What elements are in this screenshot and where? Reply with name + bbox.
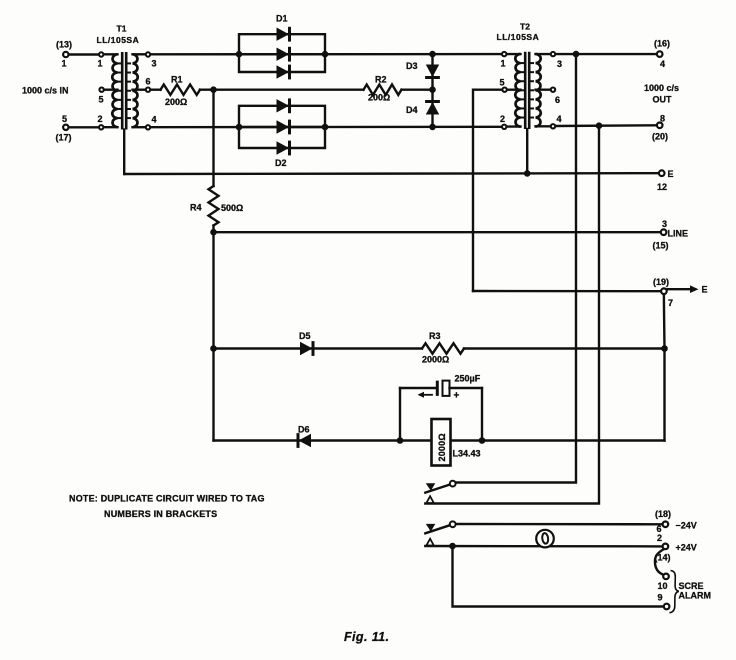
svg-text:NUMBERS IN BRACKETS: NUMBERS IN BRACKETS — [104, 509, 217, 519]
contact A armature tip — [426, 483, 436, 491]
wire D3/D4 vertical link — [431, 54, 433, 127]
terminal 9 — [658, 593, 670, 610]
wire loop terminal 2 to terminal 10 — [655, 550, 663, 575]
brace SCRE ALARM — [670, 571, 679, 613]
terminal 8 (20) output — [652, 114, 668, 142]
wire vertical from top-row node to contact A1 — [457, 54, 577, 482]
T2 secondary loop ticks — [530, 62, 534, 64]
capacitor polarity arrow minus — [418, 392, 433, 398]
wire D5 row left — [214, 347, 423, 349]
node D2 right — [322, 124, 329, 131]
svg-text:+24V: +24V — [676, 543, 697, 553]
svg-text:D1: D1 — [276, 14, 288, 24]
svg-text:500Ω: 500Ω — [221, 203, 243, 213]
transformer T1 core screen lead — [123, 130, 125, 175]
svg-text:2: 2 — [657, 533, 662, 543]
wire contact B fixed point to terminal 2 (+24V) — [425, 545, 662, 548]
contact B moving blade — [450, 521, 456, 527]
terminal 7 (19) — [653, 277, 673, 308]
diode D4 — [406, 102, 440, 116]
earth rail E — [124, 172, 658, 175]
T1 secondary loop ticks — [127, 62, 131, 64]
transformer T1 pin 1 — [99, 52, 103, 56]
svg-text:(13): (13) — [56, 40, 72, 50]
transformer T1 pin 4 — [146, 125, 150, 129]
terminal E 12 — [657, 169, 674, 192]
transformer T1 pin 2 — [99, 125, 103, 129]
node alarm branch on +24V wire — [449, 543, 456, 550]
svg-text:7: 7 — [668, 298, 673, 308]
svg-text:E: E — [668, 169, 674, 179]
svg-text:R4: R4 — [190, 203, 202, 213]
svg-text:R3: R3 — [429, 331, 441, 341]
contact A moving blade — [450, 481, 456, 487]
wire LINE rail — [214, 231, 661, 233]
wire alarm branch: node down and right to terminal 9 — [453, 546, 664, 607]
transformer T2 pin 5 — [502, 88, 506, 92]
D2 parallel frame — [239, 106, 325, 148]
svg-text:+: + — [454, 391, 460, 402]
D2 diode middle branch — [277, 120, 290, 133]
lamp / supervisory indicator on +24V wire — [536, 530, 554, 548]
svg-text:10: 10 — [658, 581, 668, 591]
earth arrow E at terminal (19) — [668, 285, 708, 295]
transformer T2 pin 6 — [551, 88, 555, 92]
node R4 bottom / LINE — [210, 229, 217, 236]
transformer T1 core — [122, 52, 126, 130]
terminal 3 LINE (15) — [653, 219, 689, 251]
svg-text:2000Ω: 2000Ω — [422, 355, 449, 365]
terminal 2 (14) +24V — [655, 533, 697, 563]
wire T2 pin 5 to vertical feed — [473, 90, 501, 291]
terminal 10 — [658, 574, 669, 591]
transformer T2 pin 2 — [502, 125, 506, 129]
diode group D2 (3 parallel diodes) — [236, 98, 329, 168]
svg-text:LL/105SA: LL/105SA — [497, 32, 540, 42]
T2 primary loop ticks — [519, 62, 524, 64]
node top row to switch feed — [573, 51, 580, 58]
wire middle row: R2 to D3/D4 node — [402, 88, 433, 90]
svg-text:D6: D6 — [298, 425, 310, 435]
T1 primary loop ticks — [116, 62, 121, 64]
svg-text:1: 1 — [62, 59, 67, 69]
node T2 screen at earth rail — [524, 170, 531, 177]
wire (19) row from T2 pin 5 feed — [473, 290, 660, 293]
transformer T2 pin 3 — [551, 52, 555, 56]
D1 parallel frame — [239, 34, 325, 72]
svg-text:(17): (17) — [56, 133, 72, 143]
node D1 right — [322, 51, 329, 58]
D1 diode top branch — [277, 28, 290, 41]
transformer T2 pin 1 — [502, 52, 506, 56]
D1 diode bottom branch — [277, 65, 290, 78]
D1 diode middle branch — [277, 48, 290, 61]
svg-text:OUT: OUT — [653, 95, 673, 105]
wire capacitor branch top left — [400, 387, 437, 389]
svg-text:8: 8 — [660, 114, 665, 124]
svg-text:E: E — [702, 285, 708, 295]
svg-text:1: 1 — [501, 59, 506, 69]
wire bottom row: T2 pin 4 to terminal 8 — [556, 124, 656, 127]
node D3/D4 at middle row — [429, 86, 436, 93]
diode D5 — [299, 331, 313, 356]
contact A fixed point — [426, 496, 433, 503]
node R3 right at vertical — [661, 345, 668, 352]
transformer T1 pin 5 — [99, 88, 103, 92]
svg-text:LINE: LINE — [668, 229, 689, 239]
svg-text:(15): (15) — [653, 241, 669, 251]
terminal 1 (13) input — [56, 40, 72, 69]
node bottom row to switch feed — [596, 122, 603, 129]
svg-text:Fig. 11.: Fig. 11. — [344, 630, 389, 644]
svg-text:3: 3 — [557, 59, 562, 69]
node capacitor left lead at D6 row — [397, 437, 404, 444]
node D3 top at top row — [429, 51, 436, 58]
svg-text:ALARM: ALARM — [679, 591, 712, 601]
node capacitor right lead at D6 row — [479, 437, 486, 444]
svg-text:1000 c/s: 1000 c/s — [644, 83, 679, 93]
contact B armature tip — [426, 524, 436, 532]
svg-text:LL/105SA: LL/105SA — [97, 35, 140, 45]
wire vertical from bottom-row node to contact A2 — [425, 126, 599, 504]
svg-text:SCRE: SCRE — [679, 581, 704, 591]
svg-text:(20): (20) — [652, 132, 668, 142]
svg-text:5: 5 — [99, 95, 104, 105]
svg-text:1000 c/s IN: 1000 c/s IN — [22, 86, 69, 96]
svg-text:4: 4 — [152, 115, 157, 125]
node left vertical at D5 row — [210, 345, 217, 352]
svg-text:5: 5 — [500, 78, 505, 88]
node D1 left — [236, 51, 243, 58]
wire bottom row: T1 pin 4 to T2 pin 2 — [151, 126, 500, 129]
capacitor C1 250uF electrolytic — [437, 374, 480, 396]
svg-text:(19): (19) — [653, 277, 669, 287]
svg-text:1: 1 — [98, 59, 103, 69]
transformer T2 core — [525, 52, 529, 129]
wire input terminal 1 to T1 pin 1 — [69, 53, 99, 55]
terminal 6 (18) -24V — [655, 509, 697, 534]
svg-text:6: 6 — [146, 77, 151, 87]
transformer T2 primary winding — [507, 54, 524, 127]
relay coil L (2000 ohm) — [432, 419, 481, 466]
svg-text:4: 4 — [660, 59, 665, 69]
svg-text:D2: D2 — [275, 158, 287, 168]
svg-text:9: 9 — [658, 593, 663, 603]
wire top row: T1 pin 3 to T2 pin 1 — [151, 53, 500, 56]
svg-text:2000Ω: 2000Ω — [437, 433, 447, 461]
wire capacitor branch right riser — [481, 388, 483, 441]
svg-text:6: 6 — [555, 95, 560, 105]
resistor R2 — [364, 75, 402, 103]
terminal 4 (16) output — [654, 39, 670, 70]
D2 diode bottom branch — [277, 141, 290, 154]
svg-text:R1: R1 — [171, 75, 183, 85]
resistor R1 — [161, 75, 201, 108]
svg-text:200Ω: 200Ω — [165, 97, 187, 107]
contact B fixed point — [426, 539, 433, 546]
wire R3 to right vertical — [464, 347, 665, 349]
svg-text:−24V: −24V — [676, 521, 697, 531]
svg-text:200Ω: 200Ω — [368, 93, 390, 103]
D2 diode top branch — [277, 99, 290, 112]
svg-text:5: 5 — [62, 114, 67, 124]
svg-text:12: 12 — [657, 182, 667, 192]
transformer T1 pin 3 — [146, 52, 150, 56]
wire top row: T2 pin 3 to terminal 4 — [556, 53, 656, 55]
node D2 left — [236, 124, 243, 131]
transformer T2 secondary winding — [530, 54, 549, 127]
svg-text:D4: D4 — [406, 105, 418, 115]
wire right vertical from terminal (19) down to D6 row — [663, 295, 666, 441]
transformer T2 core screen lead — [526, 129, 528, 174]
wire middle row: R1 to R2 — [200, 88, 364, 90]
resistor R4 500 ohm — [190, 186, 243, 226]
transformer T1 secondary winding — [127, 54, 144, 127]
svg-text:R2: R2 — [375, 75, 387, 85]
resistor R3 2000 ohm — [422, 331, 464, 365]
wire input terminal 5 to T1 pin 2 — [69, 126, 99, 128]
node junction R4 top at middle row — [210, 86, 217, 93]
terminal 5 (17) input — [56, 114, 72, 143]
svg-text:3: 3 — [662, 219, 667, 229]
transformer T1 primary winding — [104, 54, 121, 127]
svg-text:D3: D3 — [406, 61, 418, 71]
transformer T2 pin 4 — [551, 124, 555, 128]
wire contact B blade to terminal 6 (-24V) — [457, 523, 662, 526]
svg-text:2: 2 — [500, 114, 505, 124]
wire left vertical LINE node down to D6 row — [212, 232, 214, 440]
wire middle row: T1 pin 6 to R1 — [151, 88, 160, 90]
diode D3 — [406, 61, 440, 78]
svg-text:4: 4 — [557, 114, 562, 124]
svg-text:2: 2 — [98, 114, 103, 124]
wire R4 bottom to LINE rail node — [212, 226, 214, 233]
wire capacitor branch top right — [450, 387, 483, 389]
diode group D1 (3 parallel diodes) — [236, 14, 329, 80]
transformer T1 pin 6 — [146, 88, 150, 92]
svg-text:T1: T1 — [117, 24, 127, 34]
svg-text:L34.43: L34.43 — [453, 449, 481, 459]
svg-text:(18): (18) — [655, 509, 671, 519]
svg-text:(16): (16) — [654, 39, 670, 49]
svg-text:NOTE: DUPLICATE CIRCUIT WIRED: NOTE: DUPLICATE CIRCUIT WIRED TO TAG — [69, 494, 265, 504]
svg-text:3: 3 — [152, 59, 157, 69]
wire capacitor branch left riser — [399, 388, 401, 441]
svg-text:250µF: 250µF — [455, 374, 481, 384]
wire D6 row — [214, 439, 665, 441]
node D4 bottom at bottom row — [429, 124, 436, 131]
svg-text:D5: D5 — [299, 331, 311, 341]
wire R4 vertical upper: middle row node down to R4 — [212, 90, 214, 186]
svg-text:T2: T2 — [520, 22, 530, 32]
diode D6 — [298, 425, 311, 448]
